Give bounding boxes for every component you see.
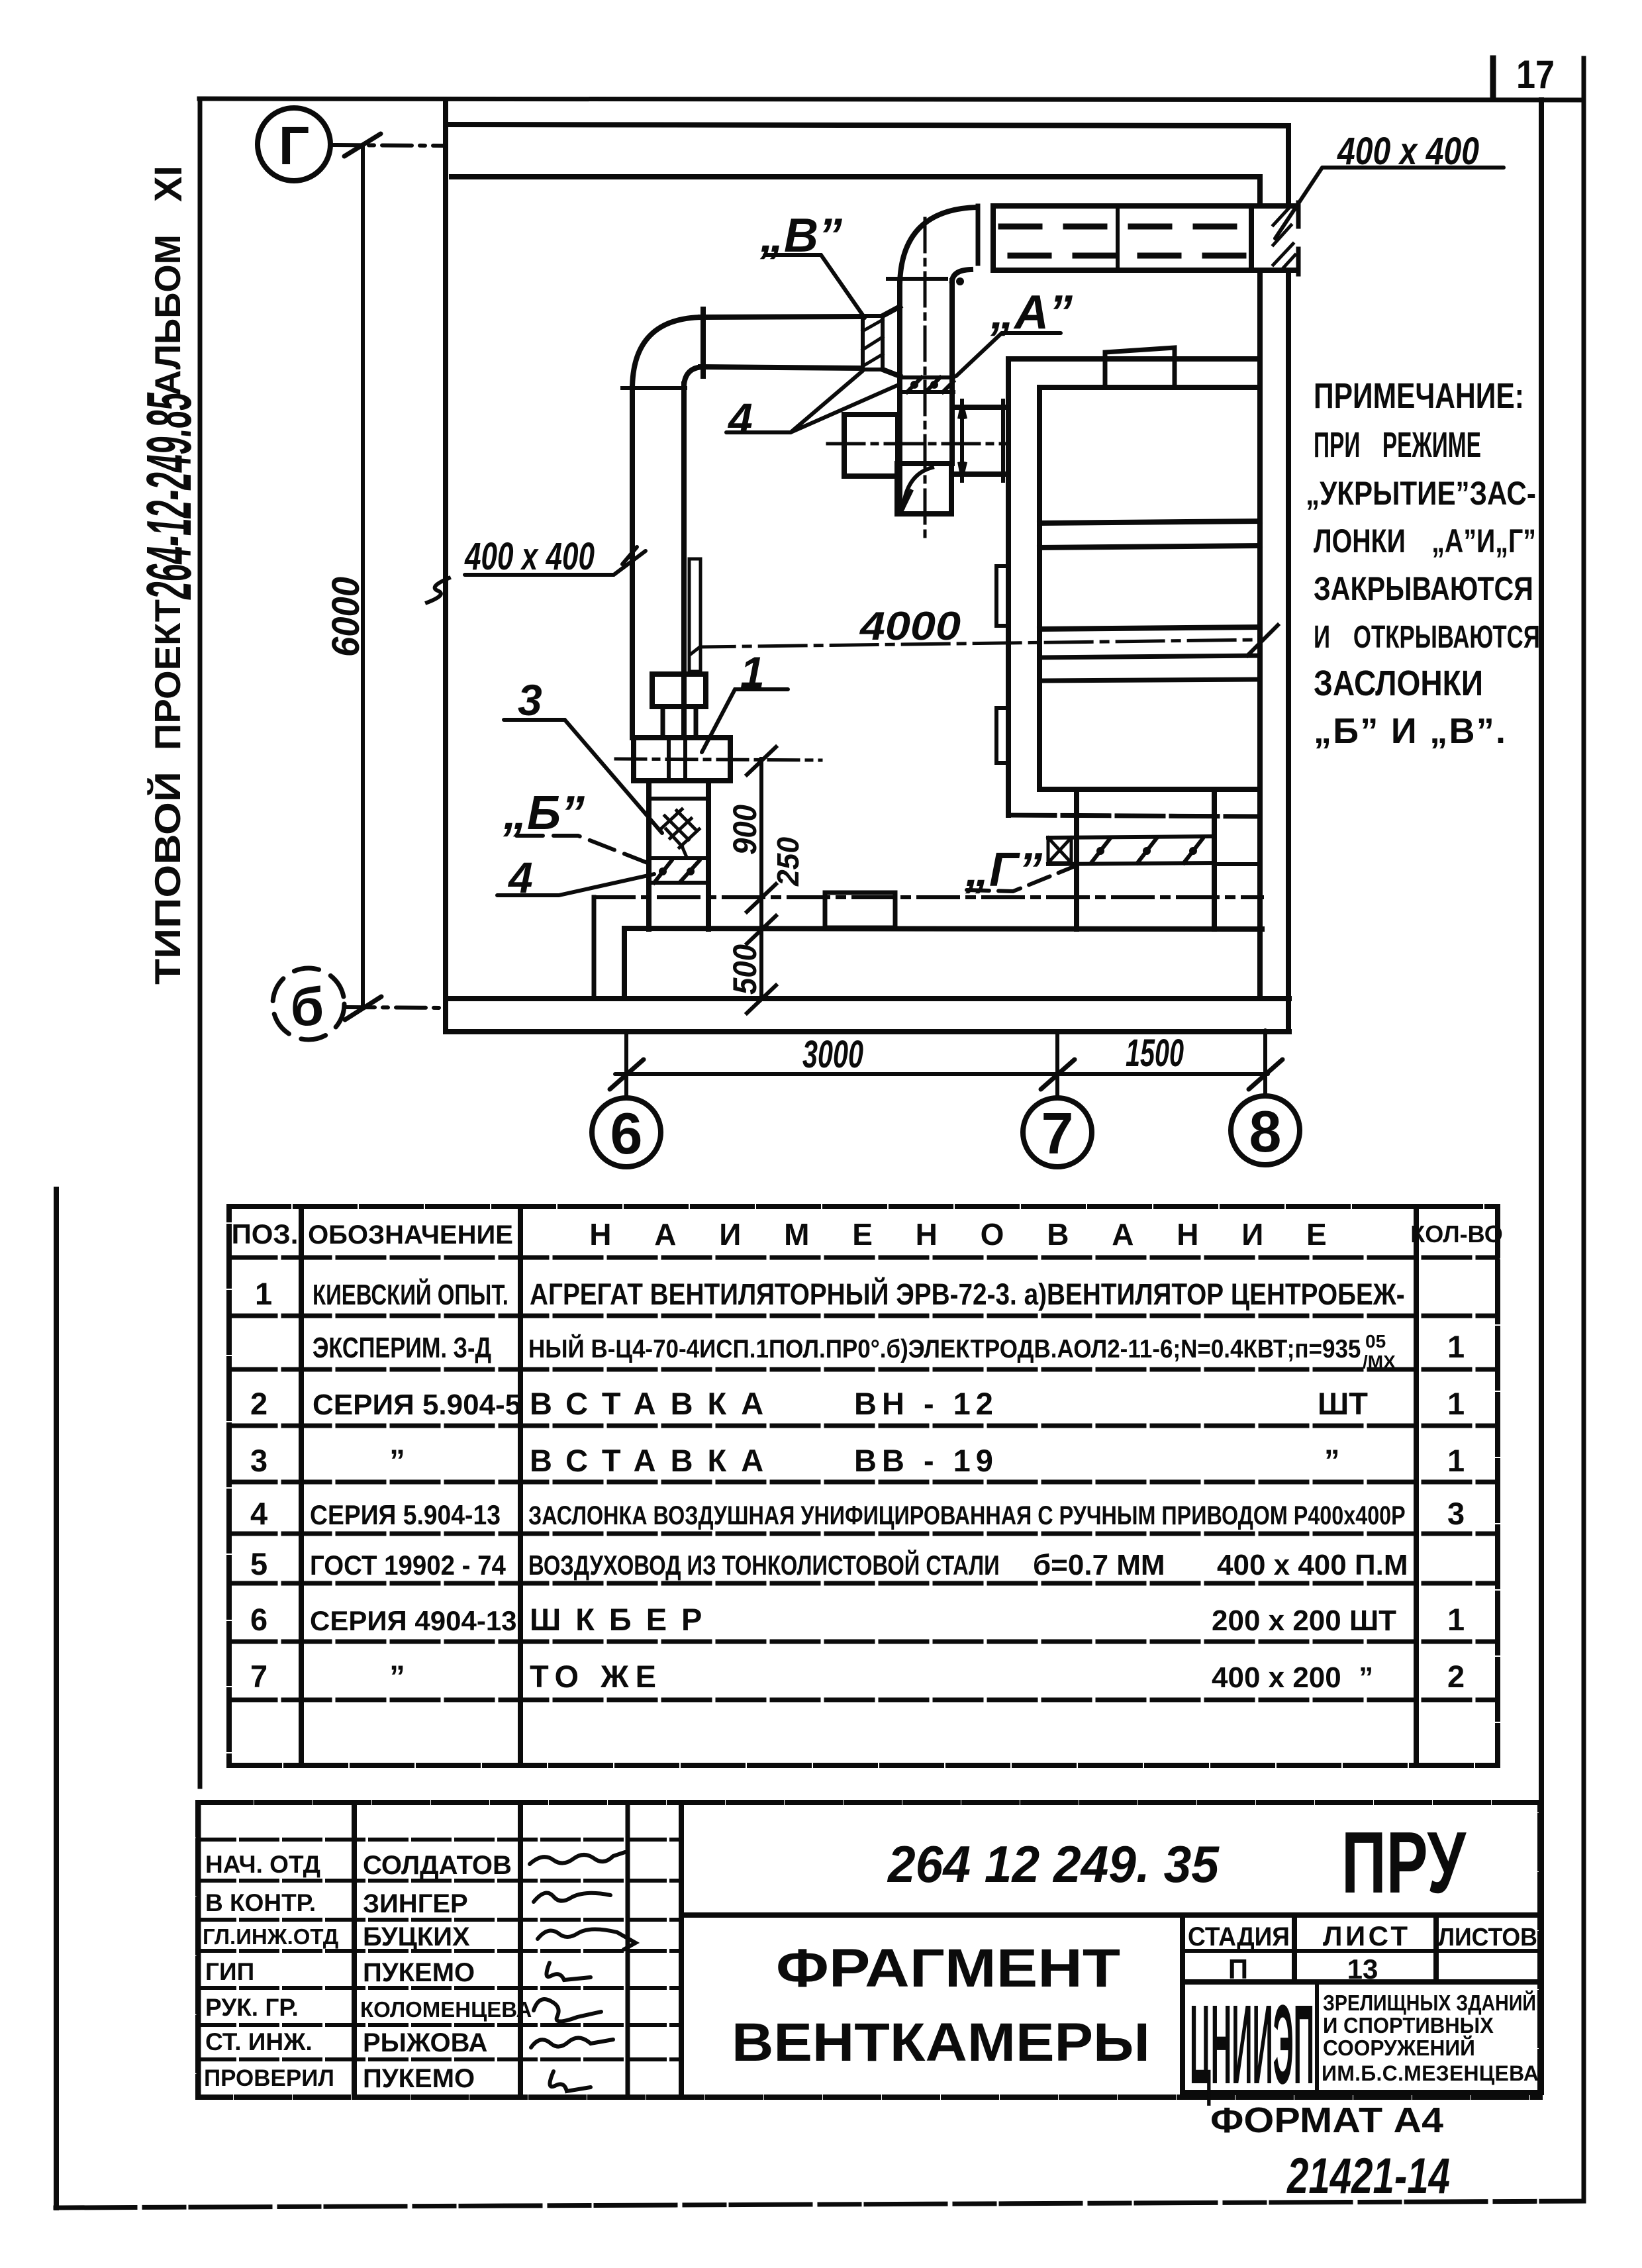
titleblock names	[360, 1851, 532, 2093]
svg-text:3: 3	[1447, 1496, 1465, 1531]
B duct top elbow outer arc	[900, 207, 977, 285]
insert VV-19 top seam	[649, 797, 708, 801]
table col line 3	[1414, 1207, 1419, 1765]
axis circle 7	[1023, 1098, 1092, 1167]
svg-text:б: б	[291, 977, 324, 1037]
label B(lower) leader	[516, 836, 654, 865]
svg-text:СТАДИЯ: СТАДИЯ	[1188, 1922, 1290, 1952]
wall top outer	[446, 124, 1288, 126]
table row line 8	[229, 1698, 1498, 1702]
svg-text:СЕРИЯ 4904-13: СЕРИЯ 4904-13	[310, 1605, 517, 1636]
axis circle б (dashed)	[273, 968, 344, 1040]
svg-text:4: 4	[727, 394, 753, 443]
table row line 6	[229, 1581, 1498, 1586]
label 1 leader	[702, 689, 788, 752]
axis 8 riser	[1263, 1030, 1267, 1097]
label B leader	[765, 255, 865, 318]
svg-text:НАЧ. ОТД: НАЧ. ОТД	[205, 1851, 320, 1878]
svg-text:ПУКЕМО: ПУКЕМО	[363, 1958, 475, 1987]
svg-text:П: П	[1228, 1953, 1248, 1985]
bonnet leg left	[661, 707, 665, 738]
label 3 leader	[504, 720, 662, 833]
svg-text:ШТ: ШТ	[1318, 1386, 1368, 1421]
svg-text:ТИПОВОЙ: ТИПОВОЙ	[146, 771, 188, 985]
titleblock outer	[198, 1802, 1540, 2097]
unit inner shelf 2	[1039, 546, 1260, 548]
titleblock col d	[679, 1802, 684, 2097]
svg-text:1: 1	[1447, 1329, 1465, 1364]
dim 4000 line	[691, 640, 1262, 654]
table row texts	[250, 1276, 1465, 1694]
floor level dash-dot line	[594, 895, 1262, 899]
svg-text:ЗАКРЫВАЮТСЯ: ЗАКРЫВАЮТСЯ	[1314, 570, 1533, 607]
inner frame right vertical	[1539, 100, 1544, 2093]
svg-text:НЫЙ В-Ц4-70-4ИСП.1ПОЛ.ПР0°.б)Э: НЫЙ В-Ц4-70-4ИСП.1ПОЛ.ПР0°.б)ЭЛЕКТРОДВ.А…	[528, 1334, 1361, 1363]
svg-text:4: 4	[507, 853, 533, 902]
scan page-edge mark left	[54, 1189, 59, 2208]
svg-text:7: 7	[1041, 1101, 1074, 1166]
damper B blades	[654, 861, 699, 883]
bottom axes dim line	[615, 1072, 1268, 1076]
duct riser left line (axis6 stack)	[630, 387, 635, 738]
unit inner box	[1039, 387, 1260, 789]
svg-text:ЗАСЛОНКА ВОЗДУШНАЯ УНИФИЦИРОВА: ЗАСЛОНКА ВОЗДУШНАЯ УНИФИЦИРОВАННАЯ С РУЧ…	[528, 1501, 1406, 1530]
svg-text:СООРУЖЕНИЙ: СООРУЖЕНИЙ	[1323, 2034, 1475, 2060]
svg-text:XI: XI	[147, 166, 190, 202]
damper G band bottom	[1048, 863, 1214, 864]
tick axis 7	[1041, 1060, 1075, 1089]
svg-text:„Б”: „Б”	[503, 787, 585, 840]
dim 900-250-500 line	[759, 759, 763, 999]
svg-text:264 12 249. 35: 264 12 249. 35	[887, 1836, 1220, 1894]
svg-text:АГРЕГАТ ВЕНТИЛЯТОРНЫЙ ЭРВ-72-: АГРЕГАТ ВЕНТИЛЯТОРНЫЙ ЭРВ-72-3. а)ВЕНТИЛ…	[530, 1277, 1405, 1310]
motor box	[844, 415, 898, 476]
transition to B duct bottom	[883, 370, 900, 376]
page border bottom	[56, 2201, 1584, 2208]
unit inner shelf 1	[1039, 521, 1260, 523]
dim tick at 1403	[747, 916, 776, 944]
svg-text:6: 6	[610, 1101, 643, 1166]
wall right inner	[1257, 177, 1263, 203]
pedestal left edge	[622, 928, 627, 999]
svg-text:БУЦКИХ: БУЦКИХ	[363, 1922, 470, 1951]
wall crossing flange upper	[1296, 203, 1301, 226]
branch flange tick	[700, 309, 706, 376]
insert VV-19 left line	[646, 781, 652, 929]
unit support right	[1212, 789, 1217, 929]
top duct rect	[993, 206, 1251, 270]
svg-text:400 х 200 ”: 400 х 200 ”	[1212, 1661, 1373, 1694]
svg-text:1: 1	[1447, 1602, 1465, 1637]
insert VV-19 mesh	[662, 809, 699, 856]
unit outer bottom	[1008, 815, 1260, 816]
svg-text:05: 05	[1365, 1331, 1386, 1352]
fan inlet flange tick 2	[1001, 401, 1005, 481]
svg-text:13: 13	[1347, 1953, 1378, 1985]
insert VN-12 hatch	[863, 320, 883, 366]
svg-text:2: 2	[250, 1386, 267, 1421]
svg-text:1: 1	[1447, 1443, 1465, 1478]
svg-text:ПРИМЕЧАНИЕ:: ПРИМЕЧАНИЕ:	[1314, 376, 1524, 416]
svg-text:5: 5	[250, 1546, 267, 1581]
svg-text:ЗРЕЛИЩНЫХ ЗДАНИЙ: ЗРЕЛИЩНЫХ ЗДАНИЙ	[1323, 1990, 1536, 2015]
svg-text:ВСТАВКА: ВСТАВКА	[530, 1386, 778, 1421]
dim tick at 1146	[747, 747, 776, 775]
item1 box inner lines	[667, 738, 671, 781]
svg-text:ВН - 12: ВН - 12	[854, 1386, 998, 1421]
axis line б	[345, 1007, 445, 1008]
svg-text:„В”: „В”	[759, 209, 842, 262]
elbow outer arc	[632, 317, 703, 389]
label A leader	[956, 333, 1061, 376]
svg-text:900: 900	[727, 805, 763, 855]
page border left lower (title block edge)	[197, 1802, 201, 2097]
dim tick at 1355	[747, 884, 776, 912]
axis circle 8	[1231, 1096, 1300, 1165]
svg-text:ВВ - 19: ВВ - 19	[854, 1443, 998, 1478]
wall left	[443, 100, 448, 1032]
svg-text:1: 1	[1447, 1386, 1465, 1421]
top duct wall stub bottom	[1251, 268, 1296, 273]
page border left	[198, 99, 203, 1787]
svg-text:ВЕНТКАМЕРЫ: ВЕНТКАМЕРЫ	[732, 2012, 1150, 2073]
svg-text:ФОРМАТ А4: ФОРМАТ А4	[1210, 2100, 1443, 2140]
damper B band top	[649, 856, 708, 860]
svg-text:ПОЗ.: ПОЗ.	[232, 1218, 299, 1250]
svg-text:”: ”	[389, 1659, 405, 1694]
unit outer left edge	[1006, 359, 1011, 815]
floor inner	[446, 996, 1289, 1001]
table header texts	[232, 1217, 1503, 1252]
tick axis 8	[1249, 1060, 1282, 1089]
elbow-duct flange tick	[976, 206, 981, 264]
support box on pedestal	[825, 893, 895, 928]
svg-text:ТО ЖЕ: ТО ЖЕ	[530, 1659, 663, 1694]
svg-text:КОЛОМЕНЦЕВА: КОЛОМЕНЦЕВА	[360, 1997, 532, 2022]
svg-text:„А”: „А”	[990, 286, 1073, 339]
svg-text:КОЛ-ВО: КОЛ-ВО	[1410, 1220, 1502, 1248]
svg-text:РЫЖОВА: РЫЖОВА	[363, 2028, 487, 2057]
B duct outlet flow arc	[903, 468, 932, 507]
svg-text:ГОСТ 19902 - 74: ГОСТ 19902 - 74	[310, 1550, 506, 1581]
svg-text:И ОТКРЫВАЮТСЯ: И ОТКРЫВАЮТСЯ	[1314, 619, 1540, 655]
table row line 2	[229, 1367, 1498, 1372]
page border right	[1582, 58, 1586, 2200]
axis 7 riser	[1055, 1032, 1059, 1099]
B duct left line	[897, 283, 902, 514]
label 4 top leaders	[726, 371, 897, 432]
wall right outer	[1286, 126, 1291, 203]
axis circle Г	[258, 108, 330, 181]
svg-text:264-12-249.85: 264-12-249.85	[134, 392, 205, 600]
fan inlet flange tick 1	[960, 401, 964, 481]
elbow inner arc	[684, 367, 703, 385]
svg-text:400 х 400 П.М: 400 х 400 П.М	[1217, 1549, 1408, 1581]
duct riser right line	[681, 384, 687, 738]
insert VN-12 strip	[863, 316, 883, 370]
svg-text:ОБОЗНАЧЕНИЕ: ОБОЗНАЧЕНИЕ	[308, 1220, 513, 1250]
svg-text:4000: 4000	[859, 604, 961, 648]
svg-text:ФРАГМЕНТ: ФРАГМЕНТ	[776, 1938, 1120, 1998]
svg-text:СОЛДАТОВ: СОЛДАТОВ	[363, 1851, 512, 1880]
B duct outlet tick	[900, 491, 911, 513]
table row line 1	[229, 1314, 1498, 1318]
damper G blades	[1091, 839, 1202, 863]
valve bonnet box	[652, 674, 706, 707]
dim 6000 arrow top	[344, 134, 381, 156]
tick axis 6	[610, 1060, 644, 1089]
logo institute lines	[1322, 1990, 1539, 2085]
svg-text:1500: 1500	[1126, 1031, 1184, 1074]
top duct divider	[1116, 206, 1120, 270]
titleblock role labels	[203, 1851, 338, 2091]
page number tick	[1490, 58, 1496, 99]
svg-text:6000: 6000	[324, 577, 367, 657]
svg-text:ШКБЕР: ШКБЕР	[530, 1602, 716, 1637]
svg-text:АЛЬБОМ: АЛЬБОМ	[147, 234, 188, 396]
signature squiggles	[530, 1852, 636, 2091]
svg-text:/МХ: /МХ	[1363, 1352, 1396, 1372]
motor centerline	[828, 442, 1006, 446]
svg-text:”: ”	[1324, 1443, 1340, 1478]
damper G band top	[1048, 836, 1214, 838]
branch duct top line	[700, 317, 861, 317]
svg-text:„Б” И „В”.: „Б” И „В”.	[1314, 711, 1506, 751]
branch duct bottom line	[700, 367, 861, 368]
svg-text:3: 3	[250, 1443, 267, 1478]
svg-text:СЕРИЯ 5.904-13: СЕРИЯ 5.904-13	[310, 1500, 501, 1531]
titleblock col c	[626, 1802, 630, 2097]
unit inner shelf 4	[1039, 656, 1260, 658]
svg-text:ГЛ.ИНЖ.ОТД: ГЛ.ИНЖ.ОТД	[203, 1924, 338, 1949]
unit support left	[1074, 789, 1079, 929]
wall left break mark	[427, 578, 449, 603]
svg-text:ИМ.Б.С.МЕЗЕНЦЕВА: ИМ.Б.С.МЕЗЕНЦЕВА	[1322, 2061, 1539, 2085]
damper B band bottom	[649, 881, 708, 885]
label 4 bottom leader	[497, 874, 654, 895]
note text block	[1306, 376, 1540, 751]
table row line 4	[229, 1480, 1498, 1485]
label G leader	[967, 865, 1077, 891]
top duct dash row 1	[1001, 224, 1246, 230]
svg-text:7: 7	[250, 1659, 267, 1694]
unit inner shelf 5	[1039, 679, 1260, 681]
table row line 5	[229, 1532, 1498, 1536]
stage header box lines	[1180, 1915, 1185, 2093]
B duct centerline	[924, 219, 927, 536]
transition to B duct top	[883, 307, 900, 316]
wall crossing hatch	[1273, 209, 1295, 270]
table col line 1	[299, 1207, 304, 1765]
svg-text:400 х 400: 400 х 400	[1337, 130, 1479, 173]
floor outer	[446, 1029, 1289, 1034]
unit left tab lower	[996, 708, 1008, 763]
svg-text:8: 8	[1249, 1099, 1282, 1164]
svg-text:ЗАСЛОНКИ: ЗАСЛОНКИ	[1314, 664, 1483, 703]
table row line 7	[229, 1640, 1498, 1644]
axis circle 6	[592, 1098, 661, 1167]
unit top cap box	[1105, 348, 1175, 387]
B duct right line	[949, 281, 955, 464]
pedestal top	[624, 928, 1262, 929]
svg-text:И СПОРТИВНЫХ: И СПОРТИВНЫХ	[1323, 2013, 1494, 2038]
svg-text:ВОЗДУХОВОД ИЗ ТОНКОЛИСТОВОЙ СТ: ВОЗДУХОВОД ИЗ ТОНКОЛИСТОВОЙ СТАЛИ	[528, 1550, 1000, 1581]
svg-text:3000: 3000	[802, 1032, 863, 1076]
svg-text:ПРОЕКТ: ПРОЕКТ	[147, 599, 188, 750]
dim tick at 1508	[747, 985, 776, 1013]
svg-text:ЛИСТОВ: ЛИСТОВ	[1438, 1923, 1537, 1951]
titleblock col a	[352, 1802, 357, 2097]
wall top inner	[452, 174, 1260, 179]
svg-text:17: 17	[1516, 52, 1555, 97]
bonnet leg right	[694, 707, 699, 738]
titleblock col b	[518, 1802, 523, 2097]
svg-text:СЕРИЯ 5.904-5: СЕРИЯ 5.904-5	[313, 1389, 521, 1421]
dim 6000 line	[361, 145, 365, 1007]
svg-text:ЗИНГЕР: ЗИНГЕР	[363, 1889, 468, 1918]
titleblock sig rows	[198, 1840, 681, 2059]
svg-text:Г: Г	[279, 116, 310, 176]
damper G crossed square	[1048, 838, 1071, 863]
page border top	[199, 99, 1584, 100]
label 400x400 top underline+leader	[1275, 168, 1504, 238]
fan inlet flange bottom line	[952, 471, 1008, 477]
svg-text:400 х 400: 400 х 400	[464, 534, 595, 577]
svg-text:б=0.7 ММ: б=0.7 ММ	[1033, 1549, 1165, 1581]
wall crossing flange lower	[1296, 249, 1301, 274]
svg-text:3: 3	[518, 675, 542, 724]
damper G side line	[1214, 862, 1260, 866]
axis 6 riser	[624, 1032, 628, 1099]
svg-text:КИЕВСКИЙ ОПЫТ.: КИЕВСКИЙ ОПЫТ.	[313, 1277, 508, 1311]
label 400x400 left underline+leader	[465, 547, 646, 575]
svg-text:2: 2	[1447, 1659, 1465, 1694]
svg-text:В КОНТР.: В КОНТР.	[205, 1889, 316, 1916]
svg-text:ЛИСТ: ЛИСТ	[1323, 1920, 1408, 1951]
svg-text:„Г”: „Г”	[965, 844, 1042, 897]
svg-text:ЭКСПЕРИМ. З-Д: ЭКСПЕРИМ. З-Д	[313, 1332, 491, 1364]
svg-text:Н А И М Е Н О В А Н И Е: Н А И М Е Н О В А Н И Е	[589, 1217, 1344, 1252]
svg-text:6: 6	[250, 1602, 267, 1637]
B duct top elbow inner arc	[952, 270, 971, 281]
table col line 2	[518, 1207, 523, 1765]
spec table outer frame	[229, 1207, 1498, 1765]
riser flange dash	[622, 386, 685, 390]
svg-text:ПРИ РЕЖИМЕ: ПРИ РЕЖИМЕ	[1314, 424, 1481, 465]
fan unit item1 box	[634, 738, 730, 781]
svg-text:ЦНИИЭП: ЦНИИЭП	[1190, 1983, 1314, 2108]
svg-text:500: 500	[727, 944, 763, 995]
svg-text:ПРУ: ПРУ	[1341, 1814, 1467, 1911]
svg-text:ПРОВЕРИЛ: ПРОВЕРИЛ	[204, 2065, 334, 2091]
unit inner shelf 3	[1039, 627, 1260, 629]
svg-text:4: 4	[250, 1496, 267, 1531]
svg-text:„УКРЫТИЕ”ЗАС-: „УКРЫТИЕ”ЗАС-	[1306, 475, 1536, 512]
svg-text:СТ. ИНЖ.: СТ. ИНЖ.	[205, 2028, 313, 2055]
top duct wall stub top	[1251, 203, 1296, 209]
dim 4000 tick	[1247, 625, 1278, 656]
svg-text:200 х 200 ШТ: 200 х 200 ШТ	[1212, 1604, 1396, 1637]
svg-text:РУК. ГР.: РУК. ГР.	[205, 1994, 299, 2021]
unit outer top	[1008, 356, 1260, 362]
unit left tab upper	[996, 566, 1008, 626]
table header line	[229, 1256, 1498, 1260]
actuator rod	[689, 559, 700, 671]
damper A hatch band	[904, 377, 953, 392]
insert VV-19 right line	[706, 781, 711, 929]
B duct elbow flange dash	[888, 277, 946, 281]
svg-text:”: ”	[389, 1443, 405, 1478]
item1 centerline	[616, 759, 821, 760]
svg-text:ПУКЕМО: ПУКЕМО	[363, 2064, 475, 2093]
svg-text:ГИП: ГИП	[205, 1958, 254, 1985]
axis line Г	[331, 145, 445, 146]
logo box bottom	[1183, 2090, 1540, 2095]
fan inlet flange top line	[952, 405, 1008, 410]
pit edge line	[592, 897, 597, 999]
fan inlet arrow marks	[959, 404, 965, 477]
stage header texts	[1188, 1920, 1537, 1985]
svg-text:ЛОНКИ „А”И„Г”: ЛОНКИ „А”И„Г”	[1314, 522, 1536, 560]
dim 6000 arrow bottom	[345, 997, 381, 1020]
titleblock doc row line	[681, 1912, 1540, 1918]
svg-text:1: 1	[740, 648, 765, 697]
table row line 3	[229, 1424, 1498, 1428]
svg-text:250: 250	[771, 837, 805, 887]
svg-text:1: 1	[255, 1276, 272, 1311]
logo divider	[1315, 1982, 1319, 2093]
top duct dash row 2	[1010, 253, 1246, 259]
svg-text:ВСТАВКА: ВСТАВКА	[530, 1443, 778, 1478]
svg-text:21421-14: 21421-14	[1286, 2149, 1450, 2204]
B duct outlet box	[897, 464, 951, 514]
B duct elbow flange dot	[956, 277, 964, 285]
